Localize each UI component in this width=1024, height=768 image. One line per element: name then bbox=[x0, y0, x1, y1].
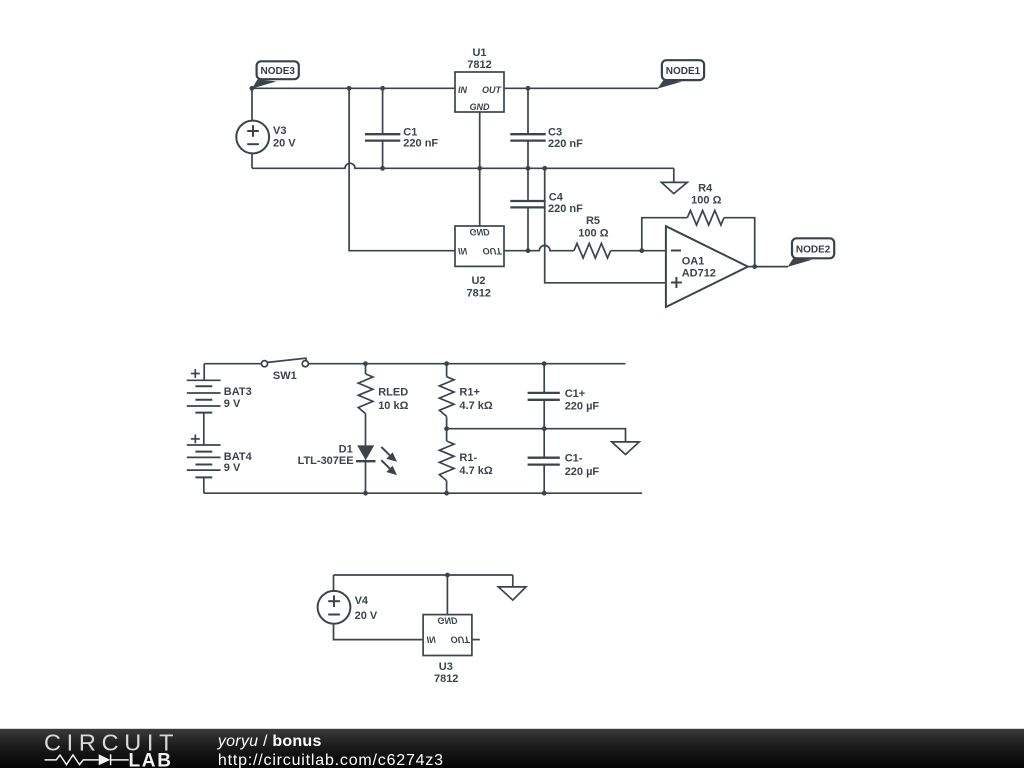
svg-text:C1-: C1- bbox=[565, 453, 583, 465]
label OA1 AD712 bbox=[682, 255, 716, 279]
ground mid-section bbox=[612, 442, 640, 455]
wire top rail right (U1 OUT to NODE1) bbox=[504, 87, 658, 89]
label BAT3 9 V bbox=[224, 386, 252, 410]
label V3 20 V bbox=[273, 125, 296, 150]
svg-text:9 V: 9 V bbox=[224, 462, 241, 474]
label C1+ 220 uF bbox=[565, 388, 600, 413]
svg-text:4.7 kΩ: 4.7 kΩ bbox=[459, 465, 492, 477]
svg-text:9 V: 9 V bbox=[224, 398, 241, 410]
resistor R5 bbox=[574, 243, 611, 258]
node label NODE3 bbox=[252, 61, 299, 88]
svg-text:SW1: SW1 bbox=[273, 370, 297, 382]
label R1+ 4.7 kohm bbox=[459, 387, 492, 412]
svg-text:NODE3: NODE3 bbox=[260, 66, 295, 77]
svg-text:yoryu / bonus: yoryu / bonus bbox=[217, 733, 322, 750]
svg-text:OA1: OA1 bbox=[682, 255, 705, 267]
battery BAT4 bbox=[187, 435, 221, 478]
svg-text:R4: R4 bbox=[698, 182, 713, 194]
svg-text:U3: U3 bbox=[439, 661, 453, 673]
svg-text:OUT: OUT bbox=[451, 635, 472, 645]
switch SW1 bbox=[261, 358, 308, 367]
wire mid-section top rail bbox=[204, 363, 625, 365]
node junction dot top rail x349 bbox=[347, 86, 352, 91]
label D1 LTL-307EE bbox=[298, 443, 354, 467]
wire R4 right leg down to output bbox=[724, 218, 755, 267]
node junction dots mid rail bbox=[444, 426, 449, 431]
node junction dot mid rail x382 bbox=[380, 166, 385, 171]
wire mid rail to + input bbox=[545, 168, 666, 282]
node label NODE2 bbox=[788, 238, 835, 267]
voltage source V4 bbox=[318, 575, 424, 640]
svg-text:OUT: OUT bbox=[483, 246, 504, 256]
node junction dots bottom rail bbox=[363, 491, 368, 496]
label RLED 10 kohm bbox=[378, 387, 408, 412]
svg-text:R5: R5 bbox=[586, 215, 600, 227]
capacitor C4 bbox=[510, 168, 545, 250]
svg-text:AD712: AD712 bbox=[682, 268, 716, 280]
node junction dot top rail x382 (C1) bbox=[380, 86, 385, 91]
svg-text:LTL-307EE: LTL-307EE bbox=[298, 455, 354, 467]
label C1- 220 uF bbox=[565, 453, 600, 478]
wire mid rail with hop bbox=[252, 163, 674, 168]
svg-text:IN: IN bbox=[427, 635, 437, 645]
logo resistor-diode symbol bbox=[45, 754, 129, 765]
svg-text:http://circuitlab.com/c6274z3: http://circuitlab.com/c6274z3 bbox=[218, 752, 444, 768]
svg-text:NODE1: NODE1 bbox=[666, 66, 701, 77]
svg-text:V4: V4 bbox=[355, 595, 369, 607]
svg-text:R1-: R1- bbox=[459, 452, 477, 464]
svg-text:LAB: LAB bbox=[129, 751, 173, 768]
wire mid-section bottom rail bbox=[204, 492, 642, 494]
resistor R4 bbox=[687, 210, 724, 225]
label R5 100 ohm bbox=[578, 215, 608, 239]
svg-text:RLED: RLED bbox=[378, 387, 408, 399]
logo diode triangle bbox=[99, 754, 111, 765]
wire vertical to U2 IN bbox=[349, 88, 455, 250]
wire U1 GND pin down bbox=[479, 112, 481, 168]
svg-text:220 nF: 220 nF bbox=[548, 138, 583, 150]
svg-text:U2: U2 bbox=[471, 275, 485, 287]
resistor R1+ bbox=[439, 364, 454, 429]
svg-text:R1+: R1+ bbox=[459, 387, 480, 399]
node junction dot mid rail x544 bbox=[542, 166, 547, 171]
op-amp OA1 bbox=[666, 226, 748, 307]
label C1 220 nF bbox=[403, 126, 438, 149]
svg-text:100 Ω: 100 Ω bbox=[691, 195, 721, 207]
battery BAT3 bbox=[187, 369, 221, 413]
svg-text:4.7 kΩ: 4.7 kΩ bbox=[459, 400, 492, 412]
label U1 7812 bbox=[467, 47, 491, 71]
node junction dot top rail x528 (C3) bbox=[526, 86, 531, 91]
wire left drop to BAT3 bbox=[203, 364, 205, 381]
svg-text:7812: 7812 bbox=[434, 673, 458, 685]
wire opamp output bbox=[748, 266, 788, 268]
label V4 20 V bbox=[355, 595, 378, 622]
svg-text:IN: IN bbox=[458, 85, 468, 95]
wire mid rail E to ground bbox=[447, 429, 626, 442]
svg-text:U1: U1 bbox=[472, 47, 486, 59]
svg-text:IN: IN bbox=[458, 246, 468, 256]
regulator U3 flipped bbox=[423, 575, 480, 656]
svg-text:220 nF: 220 nF bbox=[403, 137, 438, 149]
svg-text:7812: 7812 bbox=[467, 59, 491, 71]
node junction dots mid-section top rail bbox=[363, 361, 368, 366]
svg-text:100 Ω: 100 Ω bbox=[578, 228, 608, 240]
svg-text:OUT: OUT bbox=[482, 85, 503, 95]
node junction dot mid rail x479 bbox=[477, 166, 482, 171]
regulator U2 flipped bbox=[455, 168, 504, 266]
capacitor C3 bbox=[510, 88, 545, 168]
svg-text:220 nF: 220 nF bbox=[548, 203, 583, 215]
LED D1 bbox=[356, 445, 397, 493]
svg-text:BAT3: BAT3 bbox=[224, 386, 252, 398]
label U2 7812 bbox=[466, 275, 490, 300]
svg-text:10 kΩ: 10 kΩ bbox=[378, 400, 408, 412]
node junction dot U3 GND bbox=[445, 573, 450, 578]
svg-text:GND: GND bbox=[470, 102, 491, 112]
wire feedback up and R4 left lead bbox=[642, 218, 688, 251]
label BAT4 9 V bbox=[224, 451, 253, 474]
label C3 220 nF bbox=[548, 127, 583, 151]
label C4 220 nF bbox=[548, 192, 583, 216]
node junction dot output bbox=[752, 264, 757, 269]
label R4 100 ohm bbox=[691, 182, 721, 206]
svg-text:20 V: 20 V bbox=[273, 138, 296, 150]
svg-text:20 V: 20 V bbox=[355, 610, 378, 622]
node junction dot mid rail x528 bbox=[526, 166, 531, 171]
capacitor C1 bbox=[365, 88, 400, 168]
svg-text:220 µF: 220 µF bbox=[565, 401, 600, 413]
resistor RLED bbox=[358, 364, 373, 446]
label U3 7812 bbox=[434, 661, 458, 685]
wire top rail left (NODE3 to U1 IN) bbox=[252, 87, 455, 89]
svg-text:NODE2: NODE2 bbox=[796, 244, 831, 255]
svg-text:GND: GND bbox=[437, 616, 458, 626]
svg-text:C3: C3 bbox=[548, 127, 562, 139]
ground bottom section bbox=[498, 575, 526, 600]
node junction dot C4 bottom bbox=[526, 248, 531, 253]
capacitor C1+ bbox=[528, 364, 560, 429]
svg-text:C1+: C1+ bbox=[565, 388, 586, 400]
wire BAT4 down to bottom rail bbox=[203, 477, 205, 493]
capacitor C1- bbox=[528, 429, 560, 494]
voltage source V3 bbox=[236, 88, 269, 168]
resistor R1- bbox=[439, 429, 454, 494]
node junction dot R5 out bbox=[639, 248, 644, 253]
svg-text:C4: C4 bbox=[549, 192, 564, 204]
svg-text:V3: V3 bbox=[273, 125, 286, 137]
wire bottom-section top rail bbox=[334, 574, 513, 576]
regulator U1 bbox=[455, 72, 504, 112]
svg-text:GND: GND bbox=[470, 227, 491, 237]
wire U2 OUT to opamp with hop and R5 leads bbox=[504, 245, 666, 250]
node label NODE1 bbox=[658, 60, 705, 88]
node A junction dot NODE3 bbox=[250, 86, 255, 91]
svg-text:D1: D1 bbox=[339, 443, 353, 455]
label R1- 4.7 kohm bbox=[459, 452, 492, 477]
wire BAT3 to BAT4 bbox=[203, 413, 205, 445]
ground top section bbox=[661, 168, 687, 193]
svg-text:7812: 7812 bbox=[466, 288, 490, 300]
svg-text:220 µF: 220 µF bbox=[565, 466, 600, 478]
